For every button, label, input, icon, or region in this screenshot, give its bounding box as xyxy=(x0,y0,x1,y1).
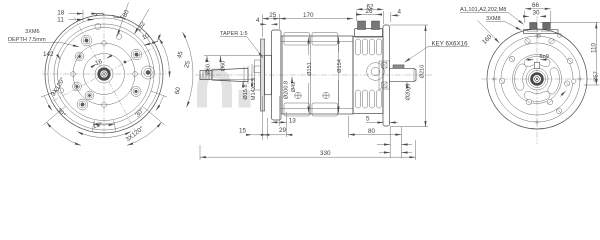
svg-text:25: 25 xyxy=(183,60,192,69)
svg-text:KEY 6X6X16: KEY 6X6X16 xyxy=(432,40,469,47)
radial ticks for angle dims xyxy=(41,91,167,131)
small hole E xyxy=(133,72,138,77)
hub ring mid xyxy=(529,71,546,88)
circle r24.5 xyxy=(513,55,562,104)
plain hole top right xyxy=(116,34,122,40)
axis centerline xyxy=(195,74,432,76)
centerline diagonal 62deg xyxy=(74,17,136,131)
stud 2 xyxy=(543,23,551,30)
screw top-right xyxy=(549,39,554,44)
label D154 xyxy=(338,38,340,53)
svg-text:330: 330 xyxy=(320,150,331,157)
angular arc inner right xyxy=(159,38,169,77)
hub bore xyxy=(535,77,540,82)
label D49 xyxy=(291,77,293,82)
hub center dot xyxy=(103,73,105,75)
screw g xyxy=(564,81,569,86)
svg-text:DEPTH 7.5mm: DEPTH 7.5mm xyxy=(8,37,46,43)
terminal block mid xyxy=(355,29,383,38)
key on shaft xyxy=(393,65,404,68)
svg-text:66: 66 xyxy=(532,2,540,9)
svg-text:5: 5 xyxy=(366,116,370,123)
svg-text:3X120°: 3X120° xyxy=(124,124,146,143)
screw e xyxy=(556,108,562,114)
bracket front wall xyxy=(272,30,282,120)
svg-text:26: 26 xyxy=(366,8,374,15)
small dot hole xyxy=(124,61,127,64)
pole pad bottom right xyxy=(312,103,338,116)
vent slots top xyxy=(356,39,382,55)
washer 2 xyxy=(541,29,552,31)
dim D210 xyxy=(390,25,428,127)
svg-text:4: 4 xyxy=(256,17,260,24)
svg-text:4: 4 xyxy=(398,8,402,15)
screw h xyxy=(571,79,576,84)
LEFT VIEW xyxy=(8,3,193,146)
stud 1 xyxy=(530,23,537,30)
svg-text:15: 15 xyxy=(239,128,247,135)
angular arc 15deg bottom xyxy=(93,124,114,125)
tick W xyxy=(492,77,497,82)
bolt symbol 1 xyxy=(295,92,302,99)
outer circle xyxy=(487,29,587,129)
small ring hole c xyxy=(85,91,94,100)
flange outer circle D180 xyxy=(45,15,163,133)
thread ticks xyxy=(203,71,209,80)
angular arc outer lower right xyxy=(127,122,161,145)
svg-text:180: 180 xyxy=(120,8,131,21)
small ring hole b xyxy=(73,82,82,91)
circle D142 xyxy=(58,28,151,121)
screw f xyxy=(567,58,573,64)
label D15.8 xyxy=(242,82,244,86)
watermark xyxy=(202,73,251,108)
svg-text:Ø200.8: Ø200.8 xyxy=(284,81,290,99)
small hole W xyxy=(71,72,76,77)
kidney window south xyxy=(524,91,550,101)
centerline horizontal xyxy=(481,78,593,80)
screw b xyxy=(547,99,553,105)
hub dark ring xyxy=(99,69,109,79)
plain hole top xyxy=(95,24,101,30)
hub ring outer xyxy=(526,68,548,90)
small ring hole a xyxy=(75,52,84,61)
angular arc main r63 piece left xyxy=(44,96,52,111)
bearing ball bottom xyxy=(382,82,388,88)
label D60 xyxy=(220,56,222,60)
main body xyxy=(281,36,353,114)
top lug left xyxy=(96,13,105,16)
svg-text:60: 60 xyxy=(174,86,183,95)
centerline vertical xyxy=(536,16,538,144)
vent slots bottom xyxy=(356,90,382,108)
svg-text:Ø20g6: Ø20g6 xyxy=(406,84,412,101)
flange plate section xyxy=(261,39,265,111)
screw top-left xyxy=(525,39,530,44)
svg-text:Ø49: Ø49 xyxy=(291,82,297,93)
M6 hole 1 xyxy=(81,35,92,46)
svg-text:80: 80 xyxy=(368,128,376,135)
centerline diagonal -28deg xyxy=(53,47,155,101)
body inner lines xyxy=(281,36,353,114)
centerline vertical xyxy=(103,12,105,137)
keyway xyxy=(534,62,539,68)
hub outer ring xyxy=(95,65,113,83)
dim 110 xyxy=(540,22,600,85)
small arrows right xyxy=(390,127,401,158)
circle r36 xyxy=(501,43,573,115)
large ring hole E xyxy=(141,66,154,79)
circle r43 xyxy=(494,36,580,122)
angular arc main r63 piece bottom xyxy=(77,132,131,138)
dim 160 xyxy=(478,21,500,44)
small circle below block xyxy=(537,34,540,37)
label D151 xyxy=(308,38,310,56)
ext line D60 xyxy=(204,54,264,56)
bottom ext lines xyxy=(263,96,287,140)
tick E xyxy=(578,77,583,82)
svg-text:3XM6: 3XM6 xyxy=(25,29,40,35)
svg-text:16: 16 xyxy=(94,58,103,67)
stud 2 mid xyxy=(372,21,380,30)
RIGHT VIEW xyxy=(460,2,600,144)
svg-text:M14X1.5: M14X1.5 xyxy=(251,78,257,100)
shaft thread M14 xyxy=(200,71,212,80)
svg-text:30: 30 xyxy=(533,10,541,17)
top lug right xyxy=(113,15,122,18)
washer disc xyxy=(255,60,261,90)
svg-text:11: 11 xyxy=(57,17,64,24)
label D60.7 xyxy=(206,56,208,60)
terminal block xyxy=(524,29,559,33)
screw a xyxy=(526,99,532,105)
svg-text:10: 10 xyxy=(141,32,151,42)
kidney window west xyxy=(515,64,527,90)
angular arc main r63 piece right xyxy=(156,96,164,111)
end cap xyxy=(353,37,383,114)
label M14X1.5 xyxy=(251,80,253,84)
bearing cover circle xyxy=(367,63,385,81)
svg-text:Ø151: Ø151 xyxy=(307,62,313,76)
hub dot xyxy=(536,78,538,80)
pole pad top left xyxy=(284,33,310,46)
boss D60 xyxy=(265,55,272,94)
taper section xyxy=(212,68,248,81)
circle r20.5 xyxy=(84,54,125,95)
hub bore xyxy=(102,72,106,76)
taper key xyxy=(254,66,263,73)
svg-text:142: 142 xyxy=(43,51,54,58)
kidney window north xyxy=(524,56,550,66)
label D20g6 xyxy=(406,82,408,85)
small hole N xyxy=(102,41,107,46)
svg-text:25: 25 xyxy=(269,12,277,19)
washer 1 xyxy=(527,29,538,31)
svg-text:30°: 30° xyxy=(55,106,68,119)
kidney window east xyxy=(548,68,560,94)
angular arc outer right xyxy=(183,32,193,107)
tick S xyxy=(535,120,540,125)
ext line under shaft xyxy=(213,78,254,80)
plain hole south west xyxy=(58,88,63,93)
pole pad bottom left xyxy=(284,103,310,116)
hub rings xyxy=(244,64,252,86)
bearing block xyxy=(379,61,390,89)
flange rim inner circle xyxy=(48,18,160,130)
M6 hole 2 xyxy=(131,49,142,60)
bearing ball top xyxy=(382,63,388,69)
angular arc outer lower left xyxy=(47,122,81,145)
circle D152 xyxy=(54,24,154,124)
svg-text:13: 13 xyxy=(289,117,297,124)
centerline horizontal xyxy=(42,73,168,75)
pointer arrow lower right xyxy=(560,91,566,97)
inner circle xyxy=(73,43,135,105)
stud 1 mid xyxy=(358,21,366,30)
screw d xyxy=(499,78,505,84)
shaft chamfer line xyxy=(413,68,415,81)
small hole S xyxy=(102,103,107,108)
svg-text:45: 45 xyxy=(176,50,185,59)
pole pad top right xyxy=(312,33,338,46)
bolt symbol 2 xyxy=(323,92,330,99)
small ring hole d xyxy=(131,87,141,97)
end plate xyxy=(383,25,390,126)
svg-text:110: 110 xyxy=(591,42,598,53)
tick N xyxy=(535,34,540,39)
MIDDLE VIEW xyxy=(195,3,470,160)
screw c xyxy=(509,56,515,62)
M6 hole 3 xyxy=(77,99,88,110)
svg-text:6n9: 6n9 xyxy=(540,54,549,60)
svg-text:170: 170 xyxy=(303,12,314,19)
hub dark ring xyxy=(532,74,543,85)
notch right of block xyxy=(558,33,562,37)
svg-text:18: 18 xyxy=(57,9,65,16)
svg-text:Ø154: Ø154 xyxy=(337,59,343,73)
svg-text:Ø57: Ø57 xyxy=(594,71,600,82)
output shaft xyxy=(390,68,417,81)
svg-text:29: 29 xyxy=(279,127,287,134)
svg-text:Ø210: Ø210 xyxy=(420,65,426,79)
